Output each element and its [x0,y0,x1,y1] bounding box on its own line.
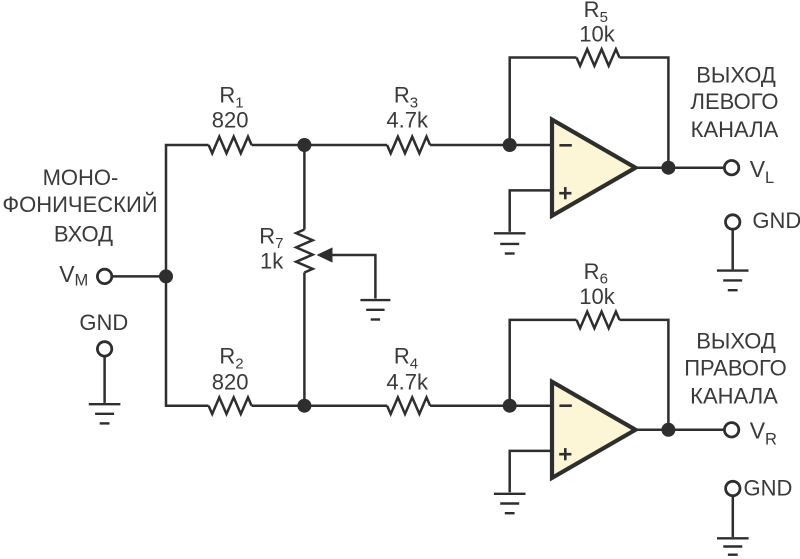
wire: V_M input terminal to node [113,275,167,278]
wire: input node up to R1 [166,145,209,276]
wire: U1 non-inverting input to ground [510,190,551,232]
svg-text:1k: 1k [260,248,284,273]
wire: R5 to output node [620,58,669,168]
op-amp U1 feedback loop wire with R5 [510,58,577,146]
svg-text:ВХОД: ВХОД [54,222,113,247]
ground: R7 wiper ground [360,300,390,319]
wire: R2 to R4 segment of bottom net [252,404,388,407]
op-amp U2 feedback loop wire with R6 [510,320,577,406]
label: R4 designator and value 4.7k [386,344,429,395]
svg-text:820: 820 [212,370,249,395]
wire: R4 to U2 inverting input [430,404,551,407]
svg-text:ВЫХОД: ВЫХОД [696,63,776,88]
label: R3 designator and value 4.7k [386,83,429,133]
svg-text:GND: GND [752,208,800,233]
node: input junction [159,269,173,283]
resistor R1 [209,137,252,154]
svg-text:VM: VM [59,261,88,290]
node: R1/R3/R7 junction [297,138,311,152]
op-amp U2 inverting pin mark [559,404,571,407]
svg-text:VR: VR [750,418,777,449]
resistor R6 [577,312,620,329]
wire: U2 output to V_R terminal [636,429,723,432]
svg-text:820: 820 [212,107,249,132]
label: right channel output text [684,329,787,409]
svg-text:ФОНИЧЕСКИЙ: ФОНИЧЕСКИЙ [2,192,157,217]
wire: U1 output to V_L terminal [636,166,723,169]
svg-text:R2: R2 [219,344,243,373]
op-amp U1 non-inverting pin mark [559,187,571,199]
resistor R3 [387,137,430,154]
label: R6 designator and value 10k [579,259,615,309]
node: R4/R6 junction at U2 inverting input [503,399,517,413]
svg-text:4.7k: 4.7k [386,107,429,132]
resistor R5 [577,49,620,66]
terminal: V_R output [724,423,738,437]
svg-text:10k: 10k [579,284,615,309]
label: R7 designator and value 1k [259,223,284,273]
terminal: GND upper right [726,215,740,229]
ground: U1 non-inverting input ground [494,233,526,253]
resistor R2 [209,397,252,414]
op-amp U2 non-inverting pin mark [559,448,571,460]
label: R2 designator and value 820 [212,344,249,395]
potentiometer R7 wiper arrow and wire [317,247,376,298]
svg-text:ПРАВОГО: ПРАВОГО [684,356,787,381]
potentiometer R7 body [296,145,313,406]
op-amp U1 [552,120,636,216]
svg-text:R4: R4 [394,344,418,373]
wire: U2 non-inverting input to ground [510,451,551,492]
terminal: GND lower right [726,481,740,495]
op-amp U1 inverting pin mark [559,144,571,147]
wire: input node down to R2 [166,276,209,405]
svg-text:КАНАЛА: КАНАЛА [691,117,779,142]
node: R2/R4/R7 junction [297,399,311,413]
ground: U2 non-inverting input ground [494,494,526,513]
ground: left GND symbol [89,356,121,423]
svg-text:МОНО-: МОНО- [43,165,119,190]
svg-text:GND: GND [744,476,793,501]
svg-text:4.7k: 4.7k [386,370,429,395]
terminal: GND left [97,342,111,356]
wire: R1 to R3 segment of top net [252,144,388,147]
node: R3/R5 junction at U1 inverting input [503,138,517,152]
svg-text:VL: VL [750,156,775,187]
label: mono input text [2,165,157,247]
resistor R4 [387,397,430,414]
wire: R3 to U1 inverting input [430,144,551,147]
svg-text:10k: 10k [579,21,615,46]
wire: R6 to output node [620,320,669,430]
terminal: V_M input [97,269,111,283]
svg-text:КАНАЛА: КАНАЛА [690,383,778,408]
label: R1 designator and value 820 [212,83,249,133]
op-amp U2 [552,382,636,478]
svg-text:ВЫХОД: ВЫХОД [696,329,776,354]
label: R5 designator and value 10k [579,0,615,46]
ground: upper right GND symbol [717,229,749,290]
label: left channel output text [691,63,779,142]
node: U1 output junction [661,161,675,175]
ground: lower right GND symbol [717,496,749,555]
terminal: V_L output [724,161,738,175]
node: U2 output junction [661,423,675,437]
svg-text:GND: GND [79,310,128,335]
svg-text:ЛЕВОГО: ЛЕВОГО [691,89,779,114]
